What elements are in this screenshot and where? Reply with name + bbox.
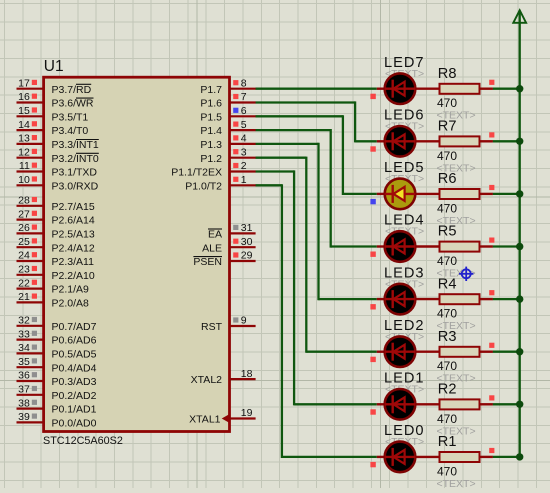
svg-text:LED3: LED3: [384, 265, 425, 281]
svg-text:34: 34: [18, 342, 30, 354]
wire net P1.1 to LED1: [256, 170, 377, 405]
U1 pin 23 (P2.2/A10): [17, 264, 95, 282]
LED2 reference label: [384, 318, 425, 334]
svg-text:17: 17: [18, 77, 30, 89]
svg-text:P2.3/A11: P2.3/A11: [52, 256, 95, 268]
junction node R3/rail: [516, 348, 523, 355]
svg-text:26: 26: [18, 222, 30, 234]
LED5 pin stubs: [377, 193, 441, 195]
resistor R2: [440, 399, 493, 409]
svg-text:21: 21: [18, 291, 30, 303]
LED6 reference label: [384, 108, 425, 124]
node square LED2 input: [370, 357, 375, 362]
svg-text:P0.5/AD5: P0.5/AD5: [52, 349, 97, 361]
wire net R7 to VCC rail: [493, 140, 521, 142]
U1 pin 24 (P2.3/A11): [17, 250, 95, 268]
svg-text:6: 6: [241, 105, 247, 117]
svg-text:22: 22: [18, 277, 30, 289]
svg-text:R6: R6: [438, 171, 457, 187]
U1 pin 19 (XTAL1): [189, 407, 255, 425]
LED4 text placeholder: [385, 226, 424, 238]
LED5 reference label: [384, 160, 425, 176]
U1 reference label: [44, 58, 64, 75]
svg-text:31: 31: [241, 222, 253, 234]
LED4 reference label: [384, 213, 425, 229]
U1 pin 38 (P0.1/AD1): [17, 397, 97, 415]
svg-text:P2.2/A10: P2.2/A10: [52, 270, 95, 282]
svg-text:1: 1: [241, 174, 247, 186]
wire net R3 to VCC rail: [493, 351, 521, 353]
R5 reference label: [438, 224, 457, 240]
resistor R1: [440, 452, 493, 462]
svg-text:P2.5/A13: P2.5/A13: [52, 229, 95, 241]
svg-text:P3.0/RXD: P3.0/RXD: [52, 180, 99, 192]
R3 reference label: [438, 329, 457, 345]
svg-text:470: 470: [437, 412, 457, 426]
svg-text:470: 470: [437, 149, 457, 163]
LED3 text placeholder: [385, 278, 424, 290]
origin marker (blue crosshair): [459, 267, 473, 281]
U1 pin 27 (P2.6/A14): [17, 208, 95, 226]
svg-text:19: 19: [241, 407, 253, 419]
LED2 pin stubs: [377, 351, 441, 353]
svg-text:15: 15: [18, 105, 30, 117]
U1 pin 2 (P1.1/T2EX): [171, 160, 255, 178]
svg-text:LED0: LED0: [384, 423, 425, 439]
svg-text:P3.5/T1: P3.5/T1: [52, 111, 89, 123]
junction node R8/rail: [516, 85, 523, 92]
U1 pin 28 (P2.7/A15): [17, 195, 95, 213]
junction node R5/rail: [516, 243, 523, 250]
node square LED5 input: [370, 199, 375, 204]
node square R1 output: [489, 448, 494, 453]
svg-text:12: 12: [18, 146, 30, 158]
svg-text:470: 470: [437, 464, 457, 478]
R8 reference label: [438, 66, 457, 82]
LED LED5: [385, 179, 416, 210]
R1 text placeholder: [437, 478, 476, 490]
svg-text:P3.6/WR: P3.6/WR: [52, 98, 94, 110]
svg-text:16: 16: [18, 91, 30, 103]
LED7 text placeholder: [385, 68, 424, 80]
resistor R4: [440, 294, 493, 304]
U1 pin 9 (RST): [201, 315, 256, 333]
svg-text:9: 9: [241, 315, 247, 327]
wire net R8 to VCC rail: [493, 88, 521, 90]
U1 pin 18 (XTAL2): [191, 368, 256, 386]
svg-text:R4: R4: [438, 276, 457, 292]
svg-text:R8: R8: [438, 66, 457, 82]
LED LED2: [385, 336, 416, 367]
junction node R6/rail: [516, 190, 523, 197]
svg-text:10: 10: [18, 174, 30, 186]
svg-text:P1.0/T2: P1.0/T2: [185, 180, 222, 192]
R7 reference label: [438, 119, 457, 135]
svg-text:P1.6: P1.6: [200, 98, 222, 110]
svg-text:23: 23: [18, 264, 30, 276]
svg-text:27: 27: [18, 208, 30, 220]
LED LED3: [385, 284, 416, 315]
svg-text:P3.3/INT1: P3.3/INT1: [52, 139, 99, 151]
svg-text:R3: R3: [438, 329, 457, 345]
svg-text:LED2: LED2: [384, 318, 425, 334]
wire net P1.7 to LED7: [256, 88, 377, 90]
svg-text:P2.1/A9: P2.1/A9: [52, 284, 90, 296]
svg-text:P3.1/TXD: P3.1/TXD: [52, 167, 98, 179]
U1 pin 10 (P3.0/RXD): [17, 174, 99, 192]
U1 pin 11 (P3.1/TXD): [17, 160, 98, 178]
svg-text:LED1: LED1: [384, 371, 425, 387]
LED6 text placeholder: [385, 121, 424, 133]
node square R6 output: [489, 185, 494, 190]
node square R2 output: [489, 395, 494, 400]
wire net R6 to VCC rail: [493, 193, 521, 195]
svg-text:24: 24: [18, 250, 30, 262]
svg-text:P2.7/A15: P2.7/A15: [52, 201, 95, 213]
wire net R5 to VCC rail: [493, 245, 521, 247]
svg-text:P3.2/INT0: P3.2/INT0: [52, 153, 99, 165]
svg-text:470: 470: [437, 359, 457, 373]
LED7 pin stubs: [377, 87, 441, 89]
svg-text:P0.4/AD4: P0.4/AD4: [52, 362, 97, 374]
U1 pin 35 (P0.4/AD4): [17, 356, 97, 374]
resistor R6: [440, 189, 493, 199]
svg-text:14: 14: [18, 119, 30, 131]
svg-text:470: 470: [437, 254, 457, 268]
R4 value label 470: [437, 307, 457, 321]
U1 pin 33 (P0.6/AD6): [17, 328, 97, 346]
R1 reference label: [438, 434, 457, 450]
wire net R2 to VCC rail: [493, 403, 521, 405]
resistor R5: [440, 242, 493, 252]
svg-text:P0.2/AD2: P0.2/AD2: [52, 390, 97, 402]
U1 pin 14 (P3.4/T0): [17, 119, 89, 137]
svg-text:7: 7: [241, 91, 247, 103]
svg-text:36: 36: [18, 370, 30, 382]
U1 pin 31 (EA): [208, 222, 256, 240]
wire net P1.5 to LED5: [256, 115, 377, 195]
R5 value label 470: [437, 254, 457, 268]
svg-text:R5: R5: [438, 224, 457, 240]
power rail VCC vertical wire: [519, 11, 521, 457]
node square LED0 input: [370, 462, 375, 467]
node square R7 output: [489, 132, 494, 137]
LED LED1: [385, 389, 416, 420]
node square R3 output: [489, 343, 494, 348]
microcontroller U1 body: [44, 77, 230, 431]
wire net R1 to VCC rail: [493, 456, 521, 458]
U1 pin 16 (P3.6/WR): [17, 91, 94, 109]
svg-text:13: 13: [18, 133, 30, 145]
U1 pin 3 (P1.2): [200, 146, 255, 164]
R3 value label 470: [437, 359, 457, 373]
R2 value label 470: [437, 412, 457, 426]
svg-text:P1.1/T2EX: P1.1/T2EX: [171, 167, 222, 179]
junction node R7/rail: [516, 138, 523, 145]
U1 value label STC12C5A60S2: [43, 435, 123, 447]
U1 pin 34 (P0.5/AD5): [17, 342, 97, 360]
LED0 text placeholder: [385, 436, 424, 448]
U1 pin 17 (P3.7/RD): [17, 77, 92, 95]
svg-text:18: 18: [241, 368, 253, 380]
svg-text:470: 470: [437, 307, 457, 321]
R2 text placeholder: [437, 425, 476, 437]
svg-text:<TEXT>: <TEXT>: [437, 478, 476, 488]
R7 text placeholder: [437, 162, 476, 174]
svg-text:P0.3/AD3: P0.3/AD3: [52, 376, 97, 388]
svg-text:P0.6/AD6: P0.6/AD6: [52, 335, 97, 347]
svg-text:R7: R7: [438, 119, 457, 135]
svg-text:30: 30: [241, 236, 253, 248]
node square LED3 input: [370, 304, 375, 309]
LED1 pin stubs: [377, 403, 441, 405]
junction node R1/rail: [516, 453, 523, 460]
U1 pin 30 (ALE): [202, 236, 255, 254]
svg-text:38: 38: [18, 397, 30, 409]
U1 pin 22 (P2.1/A9): [17, 277, 90, 295]
U1 pin 21 (P2.0/A8): [17, 291, 90, 309]
LED LED0: [385, 442, 416, 473]
wire net P1.4 to LED4: [256, 129, 377, 248]
svg-text:P3.4/T0: P3.4/T0: [52, 125, 89, 137]
svg-text:8: 8: [241, 77, 247, 89]
svg-text:P2.0/A8: P2.0/A8: [52, 298, 90, 310]
R8 value label 470: [437, 96, 457, 110]
resistor R3: [440, 347, 493, 357]
svg-text:P2.4/A12: P2.4/A12: [52, 242, 95, 254]
svg-text:37: 37: [18, 384, 30, 396]
LED1 reference label: [384, 371, 425, 387]
svg-text:P2.6/A14: P2.6/A14: [52, 215, 95, 227]
svg-text:5: 5: [241, 119, 247, 131]
svg-text:LED7: LED7: [384, 55, 425, 71]
R8 text placeholder: [437, 110, 476, 122]
R5 text placeholder: [437, 268, 476, 280]
R3 text placeholder: [437, 373, 476, 385]
svg-text:25: 25: [18, 236, 30, 248]
LED0 pin stubs: [377, 456, 441, 458]
U1 pin 29 (PSEN): [193, 250, 255, 268]
R6 reference label: [438, 171, 457, 187]
svg-text:LED6: LED6: [384, 108, 425, 124]
svg-text:470: 470: [437, 96, 457, 110]
R1 value label 470: [437, 464, 457, 478]
svg-text:39: 39: [18, 411, 30, 423]
svg-text:470: 470: [437, 201, 457, 215]
LED LED7: [385, 73, 416, 104]
svg-text:LED5: LED5: [384, 160, 425, 176]
svg-text:P0.0/AD0: P0.0/AD0: [52, 418, 97, 430]
svg-text:29: 29: [241, 250, 253, 262]
svg-text:4: 4: [241, 133, 247, 145]
LED3 reference label: [384, 265, 425, 281]
svg-text:28: 28: [18, 195, 30, 207]
U1 pin 26 (P2.5/A13): [17, 222, 95, 240]
LED5 text placeholder: [385, 173, 424, 185]
LED LED4: [385, 231, 416, 262]
svg-text:PSEN: PSEN: [193, 256, 222, 268]
node square R8 output: [489, 80, 494, 85]
svg-text:P0.1/AD1: P0.1/AD1: [52, 404, 97, 416]
U1 pin 39 (P0.0/AD0): [17, 411, 97, 429]
U1 pin 6 (P1.5): [200, 105, 255, 123]
svg-text:LED4: LED4: [384, 213, 425, 229]
LED4 pin stubs: [377, 245, 441, 247]
resistor R8: [440, 84, 493, 94]
svg-text:3: 3: [241, 146, 247, 158]
svg-text:P0.7/AD7: P0.7/AD7: [52, 321, 97, 333]
LED6 pin stubs: [377, 140, 441, 142]
node square LED6 input: [370, 146, 375, 151]
U1 pin 4 (P1.3): [200, 133, 255, 151]
U1 pin 25 (P2.4/A12): [17, 236, 95, 254]
LED0 reference label: [384, 423, 425, 439]
LED7 reference label: [384, 55, 425, 71]
svg-text:11: 11: [19, 160, 30, 172]
node square LED4 input: [370, 252, 375, 257]
U1 pin 32 (P0.7/AD7): [17, 315, 97, 333]
U1 pin 15 (P3.5/T1): [17, 105, 89, 123]
R7 value label 470: [437, 149, 457, 163]
LED1 text placeholder: [385, 384, 424, 396]
svg-text:STC12C5A60S2: STC12C5A60S2: [43, 435, 123, 447]
wire net R4 to VCC rail: [493, 298, 521, 300]
svg-text:RST: RST: [201, 321, 223, 333]
U1 pin 13 (P3.3/INT1): [17, 133, 99, 151]
wire net P1.6 to LED6: [256, 101, 377, 142]
U1 pin 36 (P0.3/AD3): [17, 370, 97, 388]
svg-text:P1.3: P1.3: [200, 139, 222, 151]
node square LED7 input: [370, 94, 375, 99]
wire net P1.3 to LED3: [256, 143, 377, 300]
U1 pin 37 (P0.2/AD2): [17, 384, 97, 402]
svg-text:P1.7: P1.7: [200, 84, 222, 96]
svg-text:EA: EA: [208, 229, 222, 241]
svg-text:P3.7/RD: P3.7/RD: [52, 84, 92, 96]
svg-text:ALE: ALE: [202, 242, 222, 254]
svg-text:35: 35: [18, 356, 30, 368]
node square R5 output: [489, 238, 494, 243]
power symbol VCC (arrow): [513, 10, 526, 23]
node square R4 output: [489, 290, 494, 295]
svg-text:R1: R1: [438, 434, 457, 450]
U1 pin 7 (P1.6): [200, 91, 255, 109]
svg-text:XTAL1: XTAL1: [189, 414, 220, 426]
svg-text:P1.4: P1.4: [200, 125, 222, 137]
svg-text:32: 32: [18, 315, 30, 327]
U1 pin 8 (P1.7): [200, 77, 255, 95]
U1 pin 12 (P3.2/INT0): [17, 146, 99, 164]
R2 reference label: [438, 382, 457, 398]
LED3 pin stubs: [377, 298, 441, 300]
R6 text placeholder: [437, 215, 476, 227]
U1 pin 1 (P1.0/T2): [185, 174, 255, 192]
LED2 text placeholder: [385, 331, 424, 343]
wire net P1.2 to LED2: [256, 157, 377, 353]
svg-text:R2: R2: [438, 382, 457, 398]
R4 reference label: [438, 276, 457, 292]
svg-text:33: 33: [18, 328, 30, 340]
svg-text:P1.2: P1.2: [200, 153, 222, 165]
svg-text:U1: U1: [44, 58, 64, 75]
U1 pin 5 (P1.4): [200, 119, 255, 137]
svg-text:P1.5: P1.5: [200, 111, 222, 123]
R6 value label 470: [437, 201, 457, 215]
junction node R2/rail: [516, 401, 523, 408]
R4 text placeholder: [437, 320, 476, 332]
svg-text:2: 2: [241, 160, 247, 172]
wire net P1.0 to LED0: [256, 184, 377, 458]
resistor R7: [440, 136, 493, 146]
junction node R4/rail: [516, 295, 523, 302]
LED LED6: [385, 126, 416, 157]
svg-text:XTAL2: XTAL2: [191, 374, 222, 386]
node square LED1 input: [370, 409, 375, 414]
